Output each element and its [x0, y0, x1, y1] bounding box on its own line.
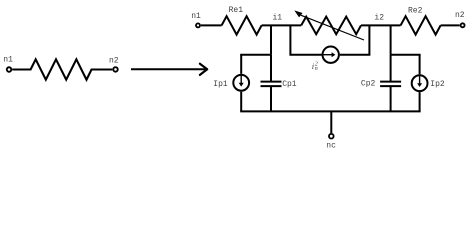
resistor Re1	[222, 16, 262, 34]
arrow (transformation)	[131, 64, 207, 75]
svg-text:n2: n2	[455, 11, 465, 20]
capacitor Cp2	[380, 55, 401, 112]
noise current source in2	[323, 47, 339, 63]
terminal nc	[329, 134, 334, 139]
wire node i2 drop	[390, 25, 392, 54]
wire node i1 drop	[270, 25, 272, 54]
terminal n2 (left)	[113, 67, 118, 72]
wire Re2 to n2	[441, 24, 460, 26]
wire loop right vertical	[340, 25, 370, 54]
capacitor Cp1	[261, 55, 282, 112]
label in2 (math)	[312, 61, 318, 72]
terminal n1 (left)	[7, 67, 12, 72]
wire n1 to Re1	[201, 24, 222, 26]
wire Ip1 bottom lead	[240, 92, 242, 112]
current source Ip1	[233, 75, 249, 91]
variable resistor Rj (junction resistor)	[301, 17, 361, 35]
svg-text:Cp1: Cp1	[282, 80, 297, 89]
terminal n2 (model)	[461, 23, 465, 27]
variable resistor arrow	[294, 10, 364, 40]
svg-text:Re2: Re2	[408, 6, 423, 15]
svg-text:i2: i2	[374, 14, 384, 23]
wire Ip1 top lead	[240, 55, 242, 74]
wire loop left vertical	[290, 25, 321, 54]
svg-text:Re1: Re1	[229, 6, 244, 15]
wire Ip2 bottom lead	[419, 92, 421, 111]
wire Ip2 top lead	[419, 55, 421, 75]
svg-text:n2: n2	[109, 57, 119, 66]
svg-text:Cp2: Cp2	[361, 79, 376, 88]
svg-text:i1: i1	[272, 13, 282, 22]
terminal n1 (model)	[196, 23, 200, 27]
wire nc stub	[330, 111, 332, 133]
current source Ip2	[412, 75, 428, 91]
svg-text:n: n	[315, 66, 318, 72]
svg-text:n1: n1	[191, 12, 201, 21]
wire bottom rail	[240, 110, 420, 112]
svg-text:n1: n1	[3, 55, 13, 64]
svg-text:nc: nc	[326, 142, 336, 151]
wire Re1 to varistor (top rail through i1)	[262, 24, 302, 26]
resistor R (left simple resistor)	[12, 59, 112, 79]
svg-text:Ip1: Ip1	[213, 80, 228, 89]
wire varistor to Re2 (top rail through i2)	[361, 24, 401, 26]
wire bar i2 to Ip2	[391, 54, 421, 56]
wire bar i1 to Ip1	[240, 54, 271, 56]
svg-text:Ip2: Ip2	[430, 80, 445, 89]
resistor Re2	[401, 16, 441, 34]
